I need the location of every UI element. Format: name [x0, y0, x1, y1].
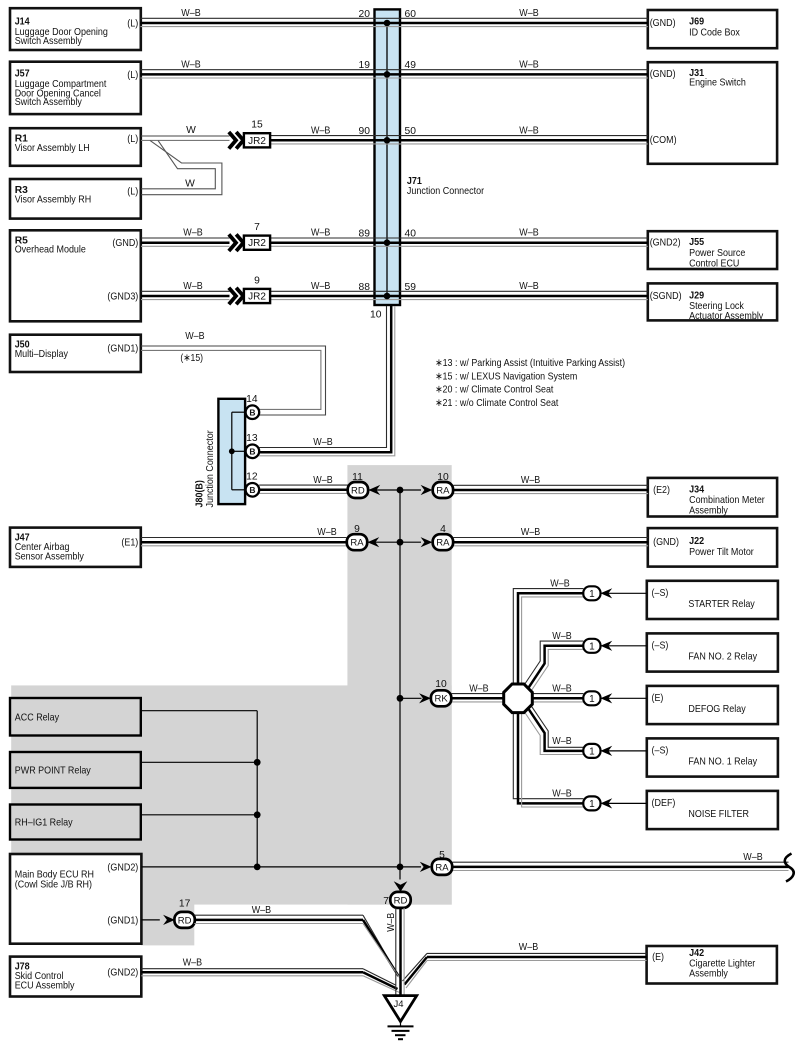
svg-text:W–B: W–B: [552, 683, 572, 694]
svg-text:RD: RD: [394, 895, 408, 906]
svg-text:RA: RA: [436, 538, 450, 549]
svg-text:Switch Assembly: Switch Assembly: [15, 36, 83, 47]
svg-text:W–B: W–B: [183, 957, 203, 968]
svg-text:(∗15): (∗15): [180, 353, 203, 364]
svg-text:W–B: W–B: [469, 683, 489, 694]
svg-text:∗20 : w/ Climate Control Seat: ∗20 : w/ Climate Control Seat: [435, 385, 553, 396]
svg-text:W–B: W–B: [550, 578, 570, 589]
svg-text:(GND1): (GND1): [107, 344, 138, 355]
svg-text:(E): (E): [652, 952, 664, 963]
svg-text:DEFOG Relay: DEFOG Relay: [688, 704, 746, 715]
svg-text:(GND3): (GND3): [107, 291, 138, 302]
svg-text:B: B: [249, 407, 255, 417]
svg-text:W–B: W–B: [519, 942, 539, 953]
svg-text:W–B: W–B: [311, 281, 331, 292]
svg-text:12: 12: [246, 471, 258, 482]
svg-text:RA: RA: [436, 485, 450, 496]
svg-text:49: 49: [405, 60, 417, 71]
svg-text:ACC Relay: ACC Relay: [15, 712, 60, 723]
svg-text:NOISE FILTER: NOISE FILTER: [688, 809, 749, 820]
svg-text:(L): (L): [127, 18, 138, 29]
svg-text:J55: J55: [689, 237, 704, 248]
svg-text:Control ECU: Control ECU: [689, 258, 739, 269]
svg-text:W–B: W–B: [552, 788, 572, 799]
svg-text:W–B: W–B: [183, 281, 203, 292]
svg-text:Power Source: Power Source: [689, 248, 746, 259]
svg-text:Overhead Module: Overhead Module: [15, 245, 86, 256]
svg-text:JR2: JR2: [248, 136, 266, 147]
svg-text:10: 10: [370, 310, 382, 321]
svg-text:(–S): (–S): [652, 746, 669, 757]
svg-text:1: 1: [589, 694, 595, 705]
svg-text:7: 7: [383, 896, 389, 907]
svg-text:5: 5: [439, 850, 445, 861]
svg-text:RH–IG1 Relay: RH–IG1 Relay: [15, 818, 74, 829]
svg-text:Junction Connector: Junction Connector: [205, 430, 216, 508]
svg-text:J80(B): J80(B): [195, 480, 206, 507]
svg-text:Actuator Assembly: Actuator Assembly: [689, 311, 764, 322]
svg-text:W–B: W–B: [552, 631, 572, 642]
svg-text:J42: J42: [689, 948, 704, 959]
svg-text:10: 10: [435, 679, 447, 690]
svg-text:Assembly: Assembly: [689, 505, 729, 516]
svg-text:9: 9: [254, 275, 260, 286]
svg-text:J4: J4: [393, 999, 403, 1010]
svg-text:RD: RD: [178, 915, 192, 926]
svg-text:STARTER Relay: STARTER Relay: [688, 599, 755, 610]
svg-text:W–B: W–B: [386, 913, 397, 932]
svg-text:90: 90: [359, 126, 371, 137]
svg-text:W–B: W–B: [183, 228, 203, 239]
svg-text:Visor Assembly RH: Visor Assembly RH: [15, 194, 92, 205]
svg-text:15: 15: [251, 120, 263, 131]
svg-text:4: 4: [440, 524, 446, 535]
svg-text:(L): (L): [127, 70, 138, 81]
svg-text:60: 60: [405, 9, 417, 20]
svg-text:W–B: W–B: [552, 736, 572, 747]
svg-text:∗15 : w/ LEXUS Navigation Syst: ∗15 : w/ LEXUS Navigation System: [435, 371, 577, 382]
svg-text:W–B: W–B: [252, 905, 272, 916]
svg-text:W–B: W–B: [311, 125, 331, 136]
svg-text:1: 1: [589, 589, 595, 600]
svg-text:(GND1): (GND1): [107, 915, 138, 926]
svg-text:W: W: [186, 125, 196, 136]
svg-text:1: 1: [589, 641, 595, 652]
svg-text:W–B: W–B: [521, 475, 541, 486]
svg-text:W–B: W–B: [521, 527, 541, 538]
svg-text:19: 19: [359, 60, 371, 71]
svg-text:88: 88: [359, 282, 371, 293]
svg-text:W–B: W–B: [519, 59, 539, 70]
svg-text:(GND): (GND): [650, 69, 676, 80]
svg-text:7: 7: [254, 222, 260, 233]
svg-text:(GND): (GND): [650, 18, 676, 29]
svg-text:W–B: W–B: [185, 331, 205, 342]
svg-text:W–B: W–B: [519, 8, 539, 19]
svg-text:∗21 : w/o Climate Control Seat: ∗21 : w/o Climate Control Seat: [435, 398, 558, 409]
svg-text:Multi–Display: Multi–Display: [15, 349, 69, 360]
svg-text:JR2: JR2: [248, 238, 266, 249]
svg-text:9: 9: [354, 524, 360, 535]
svg-text:J22: J22: [689, 536, 704, 547]
svg-text:J14: J14: [15, 17, 30, 28]
svg-text:W–B: W–B: [181, 59, 201, 70]
svg-text:17: 17: [179, 899, 191, 910]
svg-text:14: 14: [246, 394, 258, 405]
svg-text:(–S): (–S): [652, 588, 669, 599]
svg-text:FAN NO. 2 Relay: FAN NO. 2 Relay: [688, 652, 757, 663]
svg-text:W–B: W–B: [181, 8, 201, 19]
svg-text:W–B: W–B: [311, 228, 331, 239]
svg-text:13: 13: [246, 433, 258, 444]
svg-text:PWR POINT Relay: PWR POINT Relay: [15, 766, 92, 777]
svg-text:Power Tilt Motor: Power Tilt Motor: [689, 547, 754, 558]
svg-text:20: 20: [359, 9, 371, 20]
svg-text:40: 40: [405, 229, 417, 240]
svg-text:W–B: W–B: [519, 228, 539, 239]
svg-text:W–B: W–B: [313, 437, 333, 448]
svg-text:(E2): (E2): [653, 485, 670, 496]
svg-text:(Cowl Side J/B RH): (Cowl Side J/B RH): [15, 879, 92, 890]
svg-text:10: 10: [437, 472, 449, 483]
svg-text:(SGND): (SGND): [650, 291, 682, 302]
svg-text:J69: J69: [689, 17, 704, 28]
svg-text:50: 50: [405, 126, 417, 137]
svg-text:(–S): (–S): [652, 641, 669, 652]
svg-text:W–B: W–B: [313, 475, 333, 486]
svg-text:Assembly: Assembly: [689, 969, 729, 980]
svg-text:RD: RD: [351, 485, 365, 496]
svg-text:(COM): (COM): [650, 135, 677, 146]
svg-text:ECU Assembly: ECU Assembly: [15, 980, 76, 991]
svg-text:(L): (L): [127, 134, 138, 145]
svg-text:W: W: [185, 179, 195, 190]
svg-text:(GND2): (GND2): [107, 968, 138, 979]
svg-text:JR2: JR2: [248, 292, 266, 303]
svg-text:FAN NO. 1 Relay: FAN NO. 1 Relay: [688, 757, 757, 768]
svg-text:Engine Switch: Engine Switch: [689, 77, 746, 88]
svg-text:(GND2): (GND2): [107, 862, 138, 873]
svg-text:Switch Assembly: Switch Assembly: [15, 97, 83, 108]
svg-text:W–B: W–B: [519, 281, 539, 292]
svg-text:89: 89: [359, 229, 371, 240]
svg-text:W–B: W–B: [743, 852, 763, 863]
svg-text:(E1): (E1): [121, 538, 138, 549]
svg-text:Junction Connector: Junction Connector: [407, 186, 485, 197]
svg-text:1: 1: [589, 799, 595, 810]
svg-text:(GND): (GND): [112, 238, 138, 249]
svg-text:J34: J34: [689, 484, 704, 495]
svg-text:RA: RA: [435, 862, 449, 873]
svg-text:B: B: [249, 485, 255, 495]
svg-text:(E): (E): [652, 693, 664, 704]
svg-text:1: 1: [589, 747, 595, 758]
svg-text:W–B: W–B: [317, 527, 337, 538]
svg-text:Combination Meter: Combination Meter: [689, 495, 765, 506]
svg-text:Visor Assembly LH: Visor Assembly LH: [15, 143, 90, 154]
svg-text:B: B: [249, 446, 255, 456]
svg-text:(GND2): (GND2): [650, 238, 681, 249]
svg-text:ID Code Box: ID Code Box: [689, 27, 741, 38]
svg-text:RA: RA: [350, 538, 364, 549]
svg-text:Sensor Assembly: Sensor Assembly: [15, 551, 85, 562]
svg-text:(GND): (GND): [653, 537, 679, 548]
svg-text:∗13 : w/ Parking Assist (Intui: ∗13 : w/ Parking Assist (Intuitive Parki…: [435, 358, 625, 369]
svg-text:11: 11: [352, 472, 363, 483]
svg-text:RK: RK: [434, 694, 448, 705]
svg-text:(L): (L): [127, 186, 138, 197]
svg-text:W–B: W–B: [519, 125, 539, 136]
svg-text:J57: J57: [15, 69, 30, 80]
svg-text:59: 59: [405, 282, 417, 293]
svg-text:(DEF): (DEF): [652, 798, 676, 809]
